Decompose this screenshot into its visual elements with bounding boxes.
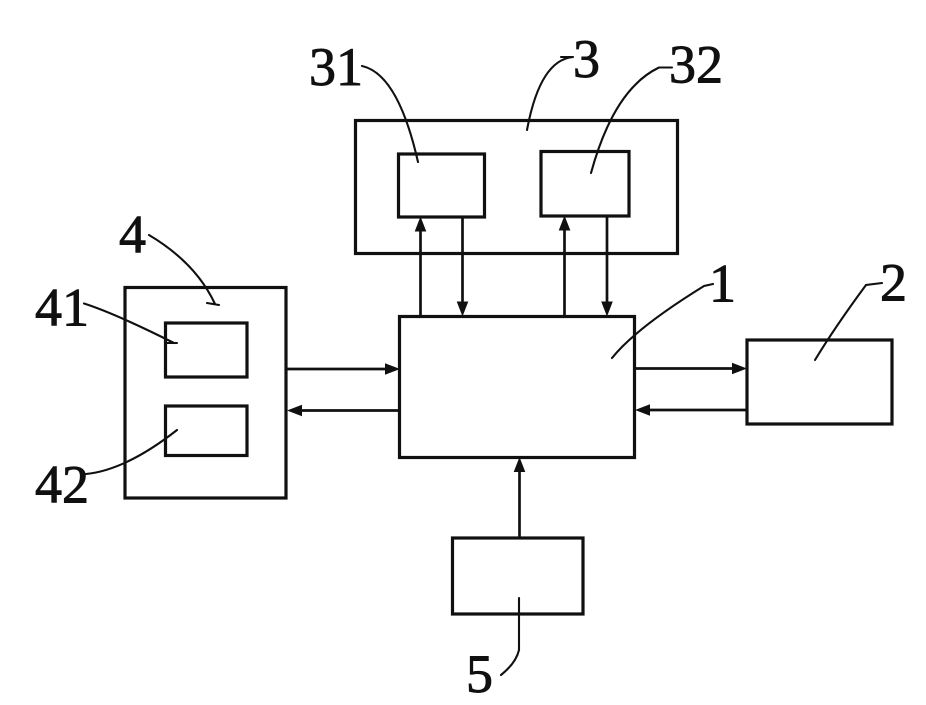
wire right from box1 to box2 with right arrowhead [635,367,735,370]
svg-text:5: 5 [466,644,493,704]
leader line for label 3 [527,57,573,130]
box 41 [166,323,248,377]
wire down from box32 to box1 with down arrowhead [606,216,609,304]
box 2 [747,340,892,424]
box 42 [166,406,248,456]
leader line for label 2 [815,283,882,360]
leader line for label 31 [362,66,418,162]
svg-text:1: 1 [709,254,736,314]
wire left from box2 to box1 with left arrowhead [647,409,747,412]
svg-text:42: 42 [35,455,89,515]
svg-text:3: 3 [573,29,600,89]
svg-text:31: 31 [309,37,363,97]
wire left from box1 to box4 with left arrowhead [299,409,399,412]
box 31 [399,154,485,217]
wire right from box4 to box1 with right arrowhead [286,368,388,371]
svg-text:41: 41 [35,278,89,338]
leader line for label 1 [612,284,713,358]
leader line for label 5 [501,598,519,675]
box 3 [356,121,678,254]
box 32 [541,152,629,217]
wire up from box1 to box31 with up arrowhead [419,229,422,316]
svg-text:4: 4 [119,205,146,265]
box 1 [400,317,635,458]
svg-text:32: 32 [669,35,723,95]
svg-text:2: 2 [880,253,907,313]
wire up from box1 to box32 with up arrowhead [563,228,566,316]
wire up from box5 to box1 with up arrowhead [518,470,521,538]
wire down from box31 to box1 with down arrowhead [461,217,464,304]
leader line for label 4 [149,235,219,305]
box 5 [453,538,584,614]
leader line for label 32 [591,68,672,174]
leader line for label 42 [86,430,177,474]
leader line for label 41 [84,304,177,344]
box 4 [125,288,286,499]
